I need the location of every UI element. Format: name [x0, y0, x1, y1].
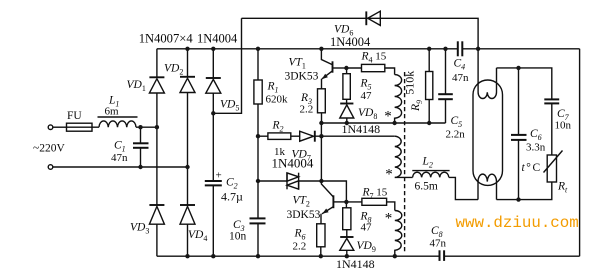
svg-text:47n: 47n [430, 238, 447, 250]
capacitor C4 47n [457, 41, 459, 56]
diode VD6 1N4004 [365, 11, 367, 25]
diac bar left [286, 173, 288, 190]
wire VD5 column [212, 49, 214, 114]
svg-text:2.2: 2.2 [293, 241, 307, 253]
svg-text:~220V: ~220V [33, 143, 65, 155]
svg-text:t°C: t°C [522, 162, 542, 174]
svg-text:510k: 510k [403, 71, 417, 95]
thermistor Rt [547, 155, 556, 182]
junction dots AC nodes [138, 125, 142, 129]
svg-text:47: 47 [361, 90, 373, 102]
diode VD8 1N4148 [340, 103, 353, 105]
svg-text:C6: C6 [530, 128, 542, 142]
svg-text:*: * [385, 211, 393, 227]
svg-text:620k: 620k [266, 94, 289, 106]
resistor R8 47 [345, 202, 347, 237]
main bus wire [157, 48, 458, 50]
svg-text:6.5m: 6.5m [415, 181, 438, 193]
capacitor C8 47n [439, 250, 441, 261]
fuse FU [67, 126, 100, 128]
svg-text:R4 15: R4 15 [361, 51, 387, 65]
capacitor C6 3.3n [518, 68, 520, 200]
svg-text:3DK53: 3DK53 [285, 71, 319, 83]
svg-text:3DK53: 3DK53 [287, 209, 321, 221]
svg-text:www.dziuu.com: www.dziuu.com [456, 214, 579, 232]
svg-text:10n: 10n [555, 120, 572, 132]
svg-text:Rt: Rt [557, 181, 568, 195]
transformer winding W3 [395, 211, 402, 257]
left rail R1/C3 column [257, 49, 259, 256]
diode VD9 1N4148 [340, 236, 353, 238]
svg-text:VT1: VT1 [289, 57, 306, 71]
wire top rail with VD6 [242, 18, 479, 49]
svg-text:2.2: 2.2 [300, 104, 314, 116]
wire VD5 node to top rail riser [213, 18, 241, 113]
svg-text:4.7µ: 4.7µ [221, 190, 243, 204]
svg-text:C2: C2 [226, 177, 238, 191]
junction dot midpoint [319, 179, 323, 183]
transformer core dashed line [404, 72, 406, 252]
wire AC live to fuse [53, 126, 67, 128]
wire lamp bottom line [497, 182, 552, 200]
svg-text:VT2: VT2 [293, 195, 310, 209]
svg-text:L2: L2 [422, 156, 433, 170]
svg-text:R7 15: R7 15 [362, 187, 388, 201]
svg-text:47n: 47n [452, 72, 469, 84]
svg-text:10n: 10n [229, 231, 247, 243]
wire AC neutral [53, 166, 188, 168]
diac bar right [298, 173, 300, 190]
capacitor C2 4.7u column [212, 113, 214, 256]
svg-text:1N4007×4: 1N4007×4 [139, 32, 194, 46]
inductor L2 6.5m [413, 172, 449, 177]
junction dot VT1 base node [344, 66, 348, 70]
resistor R9 510k [428, 49, 430, 123]
diac triangle lower [287, 181, 299, 189]
svg-text:6m: 6m [105, 106, 120, 118]
wire diac branch [258, 180, 321, 182]
wire VD1 column [156, 49, 158, 256]
capacitor C1 47n [140, 127, 142, 143]
svg-text:1N4148: 1N4148 [342, 122, 381, 136]
diode VD2 [180, 76, 195, 78]
junction dots emitter node line [319, 121, 323, 125]
junction dots lamp section [516, 66, 520, 70]
svg-text:3.3n: 3.3n [526, 142, 546, 154]
wire L2 feed [395, 176, 413, 178]
svg-text:1N4004: 1N4004 [197, 32, 238, 46]
resistor R2 1k [268, 133, 291, 140]
diac triangle upper [287, 173, 299, 181]
svg-text:VD9: VD9 [357, 240, 376, 254]
junction dots on bus [185, 47, 189, 51]
capacitor C3 10n plates [250, 217, 266, 219]
svg-text:FU: FU [67, 110, 82, 122]
junction dot VD7 node [319, 134, 323, 138]
svg-text:47n: 47n [111, 152, 128, 164]
svg-text:*: * [384, 109, 392, 125]
resistor R3 2.2 [318, 89, 326, 113]
transformer winding W1 [395, 75, 402, 123]
lamp lower filament and pins [478, 174, 497, 199]
junction dot VT2 base node [344, 200, 348, 204]
lamp tube outline [473, 80, 503, 185]
wire R2 branch [258, 135, 300, 137]
svg-text:2.2n: 2.2n [446, 129, 466, 141]
junction dots bottom rail [185, 254, 189, 258]
svg-text:VD8: VD8 [358, 107, 377, 121]
diode VD4 [180, 204, 195, 206]
svg-text:R2: R2 [272, 120, 284, 134]
lamp upper filament and pins [478, 49, 496, 99]
transformer winding W2 [395, 136, 401, 177]
terminal T2 [48, 165, 53, 170]
svg-text:R9: R9 [410, 100, 424, 112]
svg-text:R6: R6 [294, 228, 306, 242]
svg-text:VD5: VD5 [220, 99, 239, 113]
capacitor C7 10n [544, 98, 559, 100]
diode VD5 [206, 77, 221, 79]
svg-text:47: 47 [361, 222, 373, 234]
svg-text:VD4: VD4 [188, 229, 207, 243]
diode VD1 [149, 76, 164, 78]
resistor R5 47 [346, 68, 348, 104]
diode VD7 1N4004 [300, 131, 314, 141]
transistor VT1 3DK53 [321, 49, 332, 65]
svg-text:C5: C5 [451, 115, 463, 129]
capacitor C5 2.2n [445, 49, 447, 123]
svg-text:VD3: VD3 [130, 222, 149, 236]
wire L2 to lamp lower-left pin [449, 177, 478, 199]
wire VD2 column [187, 49, 189, 256]
wire midpoint column [320, 123, 322, 181]
junction dots left rail [256, 134, 260, 138]
terminal T1 [48, 125, 53, 130]
wire emitter node line [321, 122, 445, 124]
svg-text:+: + [216, 170, 222, 182]
resistor R1 620k [254, 80, 262, 104]
svg-text:VD1: VD1 [127, 79, 146, 93]
wire L1 to bridge node [136, 126, 157, 128]
svg-text:1N4004: 1N4004 [330, 35, 371, 49]
svg-text:VD2: VD2 [164, 63, 183, 77]
right rail [579, 49, 581, 256]
transistor VT2 3DK53 [321, 181, 333, 197]
bottom rail [157, 255, 580, 257]
svg-text:*: * [385, 167, 393, 183]
svg-text:1N4148: 1N4148 [336, 257, 375, 271]
svg-text:1N4004: 1N4004 [272, 156, 314, 171]
wire VT2 base bypass [321, 181, 346, 202]
diode VD3 [149, 204, 164, 206]
resistor R7 15 [346, 202, 394, 211]
wire lamp top to C6/C7 [497, 68, 552, 100]
resistor R6 2.2 [317, 224, 325, 247]
wire VD7 to midpoint and winding W2 [315, 135, 395, 137]
svg-text:C4: C4 [454, 58, 466, 72]
resistor R4 15 [346, 68, 394, 75]
inductor L1 6m [99, 121, 136, 127]
capacitor C2 plates [205, 180, 222, 182]
junction dot VD5 node [211, 111, 215, 115]
svg-text:R1: R1 [267, 81, 279, 95]
